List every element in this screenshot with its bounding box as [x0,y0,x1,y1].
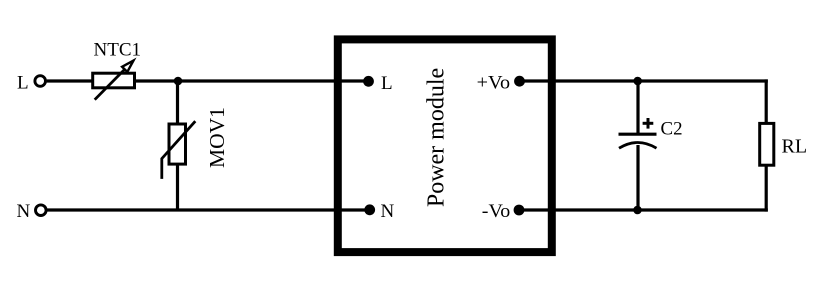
capacitor C2 [619,118,657,148]
svg-text:L: L [17,73,29,94]
pin -Vo dot [514,205,525,216]
wire MOV branch lower [176,164,179,210]
svg-text:MOV1: MOV1 [205,107,229,168]
wire top rail right: pin +Vo to right corner [520,79,768,82]
terminal L [35,76,46,87]
svg-text:RL: RL [782,135,808,157]
wire top rail left: L terminal to pin L [47,79,369,82]
svg-text:N: N [17,201,31,222]
wire MOV branch upper [176,81,179,124]
terminal N [36,205,47,216]
node junction top (MOV tap) [174,77,183,86]
node junction +Vo rail (C2 tap) [633,77,642,86]
node junction -Vo rail (C2 tap) [633,206,642,215]
wire bottom rail left: N terminal to pin N [47,208,370,211]
svg-text:-Vo: -Vo [482,201,511,222]
svg-text:+Vo: +Vo [477,73,510,94]
wire C2 branch upper [636,81,639,134]
svg-text:C2: C2 [661,119,683,140]
pin N dot [364,204,375,215]
power module U1 box [338,39,552,252]
svg-text:NTC1: NTC1 [94,40,142,61]
resistor NTC1 [93,61,135,100]
wire bottom rail right: pin -Vo to right corner [519,208,768,211]
wire right vertical lower: RL bottom to bottom rail [765,165,768,212]
svg-text:L: L [381,73,393,94]
varistor MOV1 [162,121,196,179]
wire C2 branch lower [636,145,639,210]
pin L dot [363,76,374,87]
svg-text:N: N [381,201,395,222]
svg-text:Power module: Power module [424,68,450,207]
pin +Vo dot [514,76,525,87]
resistor RL [760,123,774,165]
wire right vertical upper: corner to RL top [765,79,768,123]
